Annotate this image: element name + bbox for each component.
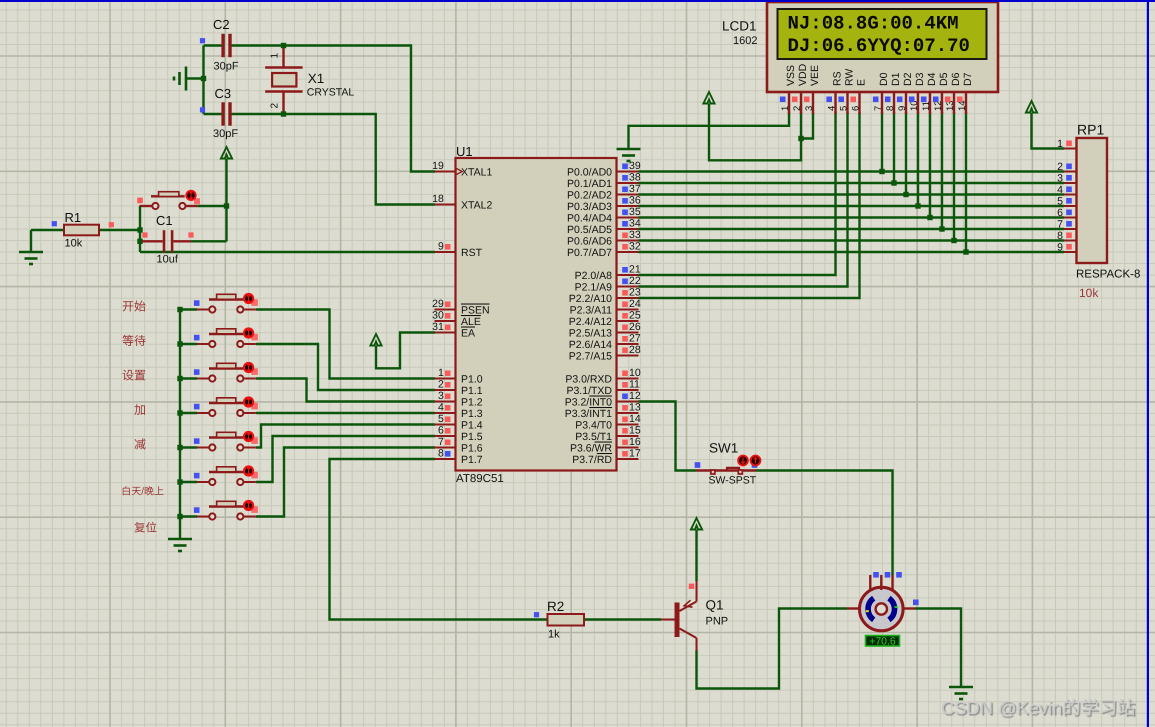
svg-text:P3.4/T0: P3.4/T0 — [575, 420, 612, 432]
svg-text:36: 36 — [629, 195, 641, 207]
svg-text:P1.0: P1.0 — [461, 374, 483, 386]
svg-text:P2.5/A13: P2.5/A13 — [569, 328, 612, 340]
svg-text:P2.3/A11: P2.3/A11 — [570, 305, 613, 317]
svg-text:P1.3: P1.3 — [461, 408, 483, 420]
svg-text:6: 6 — [1057, 207, 1063, 219]
svg-text:P2.4/A12: P2.4/A12 — [569, 316, 612, 328]
svg-text:2: 2 — [270, 103, 281, 109]
svg-text:白天/晚上: 白天/晚上 — [121, 486, 164, 498]
svg-text:1602: 1602 — [733, 35, 757, 47]
svg-text:7: 7 — [1057, 219, 1063, 231]
svg-text:11: 11 — [921, 101, 932, 111]
svg-text:RS: RS — [832, 71, 844, 86]
svg-text:8: 8 — [1057, 230, 1063, 242]
svg-text:8: 8 — [438, 448, 444, 460]
svg-text:10: 10 — [629, 367, 641, 379]
svg-text:XTAL2: XTAL2 — [461, 200, 492, 212]
svg-text:2: 2 — [1057, 161, 1063, 173]
svg-text:2: 2 — [792, 106, 803, 111]
svg-text:5: 5 — [838, 106, 849, 111]
svg-text:19: 19 — [432, 160, 444, 172]
svg-text:21: 21 — [629, 264, 641, 276]
svg-text:等待: 等待 — [122, 334, 146, 348]
svg-text:26: 26 — [629, 321, 641, 333]
svg-text:4: 4 — [438, 402, 444, 414]
svg-text:P0.4/AD4: P0.4/AD4 — [567, 213, 612, 225]
svg-text:U1: U1 — [456, 144, 473, 159]
svg-text:1k: 1k — [548, 629, 560, 641]
svg-text:10uf: 10uf — [157, 254, 179, 266]
svg-text:3: 3 — [438, 390, 444, 402]
svg-text:P3.3/INT1: P3.3/INT1 — [565, 408, 612, 420]
svg-text:LCD1: LCD1 — [722, 19, 757, 34]
svg-text:P1.5: P1.5 — [461, 431, 483, 443]
svg-text:23: 23 — [629, 287, 641, 299]
svg-text:P2.0/A8: P2.0/A8 — [575, 270, 613, 282]
svg-text:RST: RST — [461, 247, 483, 259]
svg-text:37: 37 — [629, 183, 641, 195]
svg-text:SW-SPST: SW-SPST — [709, 475, 757, 487]
svg-text:38: 38 — [629, 172, 641, 184]
svg-text:AT89C51: AT89C51 — [456, 473, 504, 485]
svg-text:P1.1: P1.1 — [461, 385, 483, 397]
svg-text:5: 5 — [1057, 196, 1063, 208]
svg-text:C1: C1 — [156, 213, 173, 228]
svg-text:34: 34 — [629, 218, 641, 230]
svg-text:Q1: Q1 — [706, 598, 724, 613]
svg-text:RP1: RP1 — [1077, 122, 1104, 138]
svg-text:P0.6/AD6: P0.6/AD6 — [567, 236, 612, 248]
svg-text:ALE: ALE — [461, 316, 481, 328]
svg-text:P1.7: P1.7 — [461, 454, 483, 466]
svg-text:32: 32 — [629, 241, 641, 253]
svg-text:15: 15 — [629, 425, 641, 437]
svg-text:R1: R1 — [65, 210, 82, 225]
svg-text:减: 减 — [134, 438, 146, 452]
svg-text:P0.1/AD1: P0.1/AD1 — [567, 178, 612, 190]
svg-text:16: 16 — [629, 436, 641, 448]
svg-text:D3: D3 — [914, 72, 926, 86]
svg-text:1: 1 — [1057, 138, 1063, 150]
svg-text:开始: 开始 — [122, 300, 146, 314]
svg-text:33: 33 — [629, 229, 641, 241]
svg-text:P3.5/T1: P3.5/T1 — [575, 431, 612, 443]
svg-text:P1.6: P1.6 — [461, 443, 483, 455]
svg-text:PNP: PNP — [706, 616, 729, 628]
svg-text:10k: 10k — [1079, 286, 1099, 300]
svg-text:VDD: VDD — [797, 63, 809, 86]
svg-text:D4: D4 — [926, 72, 938, 86]
svg-text:P3.6/WR: P3.6/WR — [570, 443, 612, 455]
svg-text:8: 8 — [885, 106, 896, 111]
svg-text:C2: C2 — [213, 17, 230, 32]
svg-text:设置: 设置 — [122, 369, 146, 383]
svg-text:加: 加 — [134, 403, 146, 417]
svg-text:1: 1 — [780, 106, 791, 111]
svg-text:D6: D6 — [950, 72, 962, 86]
svg-text:31: 31 — [432, 321, 444, 333]
svg-text:27: 27 — [629, 333, 641, 345]
svg-text:P3.7/RD: P3.7/RD — [572, 454, 612, 466]
svg-text:RW: RW — [844, 69, 856, 86]
svg-text:35: 35 — [629, 206, 641, 218]
svg-text:4: 4 — [826, 106, 837, 111]
svg-text:VSS: VSS — [785, 65, 797, 86]
svg-text:5: 5 — [438, 413, 444, 425]
svg-text:PSEN: PSEN — [461, 305, 490, 317]
svg-text:EA: EA — [461, 328, 475, 340]
svg-text:12: 12 — [629, 390, 641, 402]
svg-text:7: 7 — [438, 436, 444, 448]
svg-text:P2.6/A14: P2.6/A14 — [569, 339, 612, 351]
svg-text:30pF: 30pF — [214, 61, 239, 73]
svg-text:6: 6 — [850, 106, 861, 111]
svg-text:D7: D7 — [962, 72, 974, 86]
svg-text:3: 3 — [1057, 173, 1063, 185]
svg-text:28: 28 — [629, 344, 641, 356]
svg-text:+70.6: +70.6 — [869, 636, 896, 648]
svg-text:P2.7/A15: P2.7/A15 — [569, 351, 612, 363]
svg-text:P1.4: P1.4 — [461, 420, 483, 432]
svg-text:XTAL1: XTAL1 — [461, 167, 492, 179]
svg-text:P1.2: P1.2 — [461, 397, 483, 409]
svg-text:22: 22 — [629, 275, 641, 287]
svg-text:SW1: SW1 — [709, 441, 738, 456]
svg-text:P3.2/INT0: P3.2/INT0 — [565, 397, 612, 409]
svg-text:NJ:08.8G:00.4KM: NJ:08.8G:00.4KM — [788, 13, 959, 35]
svg-text:复位: 复位 — [134, 522, 157, 535]
svg-text:CSDN @Kevin的学习站: CSDN @Kevin的学习站 — [941, 697, 1135, 718]
svg-text:29: 29 — [432, 298, 444, 310]
svg-text:D2: D2 — [902, 72, 914, 86]
svg-text:17: 17 — [629, 448, 641, 460]
svg-text:D0: D0 — [878, 72, 890, 86]
svg-text:X1: X1 — [308, 71, 325, 86]
svg-text:C3: C3 — [215, 86, 232, 101]
svg-text:P3.0/RXD: P3.0/RXD — [565, 374, 612, 386]
svg-text:10k: 10k — [65, 238, 83, 250]
svg-text:P2.1/A9: P2.1/A9 — [575, 282, 613, 294]
svg-text:E: E — [856, 79, 868, 86]
svg-text:VEE: VEE — [809, 65, 821, 86]
svg-text:9: 9 — [897, 106, 908, 111]
svg-text:P0.3/AD3: P0.3/AD3 — [567, 201, 612, 213]
svg-text:13: 13 — [629, 402, 641, 414]
svg-text:3: 3 — [804, 106, 815, 111]
svg-text:P2.2/A10: P2.2/A10 — [569, 293, 612, 305]
svg-text:DJ:06.6YYQ:07.70: DJ:06.6YYQ:07.70 — [788, 35, 970, 57]
svg-text:9: 9 — [438, 241, 444, 253]
svg-text:D5: D5 — [938, 72, 950, 86]
svg-text:7: 7 — [873, 106, 884, 111]
svg-text:P0.2/AD2: P0.2/AD2 — [567, 190, 612, 202]
svg-text:39: 39 — [629, 160, 641, 172]
svg-text:RESPACK-8: RESPACK-8 — [1076, 269, 1140, 281]
svg-text:9: 9 — [1057, 242, 1063, 254]
svg-text:6: 6 — [438, 425, 444, 437]
svg-text:D1: D1 — [890, 72, 902, 86]
svg-text:4: 4 — [1057, 184, 1063, 196]
svg-text:11: 11 — [629, 379, 640, 391]
svg-text:14: 14 — [629, 413, 641, 425]
svg-text:1: 1 — [270, 53, 281, 59]
svg-text:P0.0/AD0: P0.0/AD0 — [567, 167, 612, 179]
svg-text:CRYSTAL: CRYSTAL — [307, 87, 355, 99]
svg-text:25: 25 — [629, 310, 641, 322]
svg-text:R2: R2 — [547, 599, 564, 614]
svg-text:P3.1/TXD: P3.1/TXD — [566, 385, 612, 397]
svg-text:18: 18 — [432, 193, 444, 205]
svg-text:2: 2 — [438, 379, 444, 391]
svg-text:1: 1 — [438, 367, 444, 379]
svg-text:P0.7/AD7: P0.7/AD7 — [567, 247, 612, 259]
svg-text:30pF: 30pF — [213, 128, 238, 140]
svg-text:P0.5/AD5: P0.5/AD5 — [567, 224, 612, 236]
svg-text:30: 30 — [432, 310, 444, 322]
svg-text:24: 24 — [629, 298, 641, 310]
